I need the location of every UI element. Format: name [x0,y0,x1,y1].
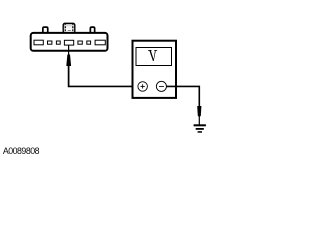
connector latch tab [63,23,75,33]
probe tip (black) [66,54,71,66]
wire from probe to voltmeter + terminal [69,65,139,86]
connector body [31,33,108,51]
voltmeter box [133,41,177,98]
pin 6 [87,41,91,44]
- terminal [156,81,166,91]
+ terminal [138,82,148,92]
svg-text:A0089808: A0089808 [3,146,40,156]
pin 4 (probed) [64,40,73,45]
connector left bump [43,27,48,33]
V label [148,50,157,61]
ground lead wire [198,116,200,125]
pin 7 [95,40,105,45]
ground probe tip (black) [197,106,201,117]
pin 1 [34,40,43,45]
wire from - terminal to ground [164,86,199,106]
voltmeter display [136,48,172,66]
pin 5 [78,41,82,44]
ground symbol [194,124,206,132]
connector right bump [90,27,94,33]
pin 2 [48,41,52,44]
probe needle [68,45,70,55]
pin 3 [56,41,60,44]
